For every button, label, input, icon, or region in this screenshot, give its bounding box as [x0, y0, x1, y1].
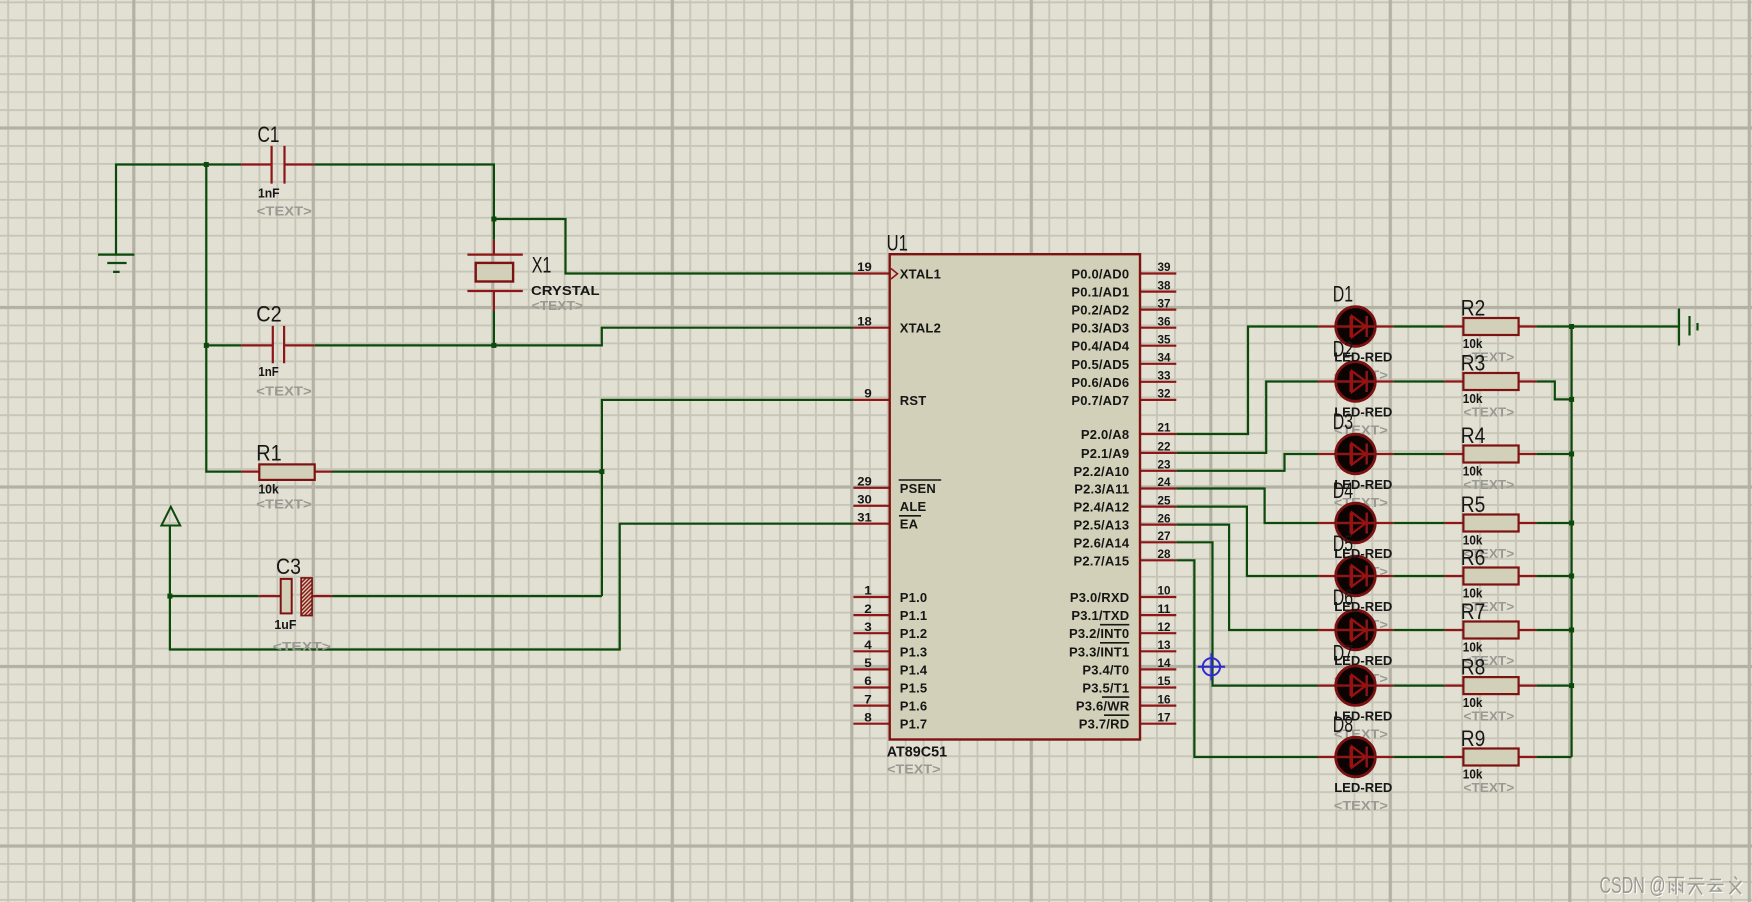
svg-text:23: 23	[1158, 458, 1171, 472]
svg-text:P3.2/INT0: P3.2/INT0	[1069, 626, 1129, 641]
svg-text:25: 25	[1158, 493, 1171, 507]
svg-text:12: 12	[1158, 620, 1171, 634]
svg-text:R5: R5	[1461, 492, 1486, 517]
svg-text:P0.3/AD3: P0.3/AD3	[1071, 321, 1129, 336]
svg-text:17: 17	[1158, 710, 1171, 724]
svg-text:29: 29	[857, 475, 872, 489]
svg-text:<TEXT>: <TEXT>	[887, 762, 941, 777]
svg-text:<TEXT>: <TEXT>	[532, 298, 584, 313]
svg-text:<TEXT>: <TEXT>	[1334, 798, 1388, 813]
svg-text:P1.3: P1.3	[900, 644, 928, 659]
svg-text:24: 24	[1158, 475, 1171, 489]
svg-text:31: 31	[857, 510, 872, 524]
svg-text:P1.0: P1.0	[900, 590, 928, 605]
svg-text:P0.1/AD1: P0.1/AD1	[1071, 285, 1129, 300]
svg-text:30: 30	[857, 493, 872, 507]
svg-text:ALE: ALE	[900, 499, 927, 514]
svg-text:P2.1/A9: P2.1/A9	[1081, 446, 1129, 461]
svg-text:P0.5/AD5: P0.5/AD5	[1071, 357, 1129, 372]
svg-text:38: 38	[1158, 278, 1171, 292]
svg-text:27: 27	[1158, 529, 1171, 543]
svg-text:C2: C2	[256, 301, 281, 326]
svg-text:X1: X1	[532, 252, 552, 277]
svg-text:10k: 10k	[258, 482, 279, 497]
svg-text:11: 11	[1158, 602, 1171, 616]
svg-text:P2.6/A14: P2.6/A14	[1073, 535, 1129, 550]
svg-text:P1.6: P1.6	[900, 699, 928, 714]
svg-text:P2.4/A12: P2.4/A12	[1073, 500, 1129, 515]
svg-text:<TEXT>: <TEXT>	[1464, 405, 1515, 420]
svg-text:32: 32	[1158, 387, 1171, 401]
svg-text:3: 3	[864, 620, 872, 634]
svg-text:D8: D8	[1333, 712, 1353, 737]
svg-text:1nF: 1nF	[258, 186, 280, 201]
svg-text:D5: D5	[1333, 531, 1353, 556]
svg-text:<TEXT>: <TEXT>	[1464, 477, 1515, 492]
svg-text:P0.6/AD6: P0.6/AD6	[1071, 375, 1129, 390]
svg-text:P3.7/RD: P3.7/RD	[1079, 717, 1130, 732]
svg-text:P3.6/WR: P3.6/WR	[1076, 699, 1130, 714]
svg-text:P0.2/AD2: P0.2/AD2	[1071, 303, 1129, 318]
svg-text:D2: D2	[1333, 336, 1353, 361]
svg-text:R7: R7	[1461, 599, 1486, 624]
svg-text:22: 22	[1158, 440, 1171, 454]
svg-text:2: 2	[864, 602, 872, 616]
svg-text:35: 35	[1158, 332, 1171, 346]
svg-text:15: 15	[1158, 674, 1171, 688]
svg-text:P1.4: P1.4	[900, 662, 928, 677]
svg-text:<TEXT>: <TEXT>	[256, 497, 312, 512]
svg-text:P0.4/AD4: P0.4/AD4	[1071, 339, 1130, 354]
svg-text:XTAL2: XTAL2	[900, 321, 941, 336]
svg-text:P3.0/RXD: P3.0/RXD	[1070, 590, 1129, 605]
svg-text:P1.2: P1.2	[900, 626, 928, 641]
svg-text:P3.1/TXD: P3.1/TXD	[1071, 608, 1129, 623]
svg-text:9: 9	[864, 387, 872, 401]
svg-text:34: 34	[1158, 351, 1171, 365]
svg-text:P2.2/A10: P2.2/A10	[1073, 464, 1129, 479]
svg-text:U1: U1	[887, 231, 908, 256]
svg-text:16: 16	[1158, 692, 1171, 706]
svg-text:6: 6	[864, 674, 872, 688]
svg-text:R1: R1	[256, 441, 281, 466]
svg-text:18: 18	[857, 314, 872, 328]
svg-text:5: 5	[864, 656, 872, 670]
svg-text:36: 36	[1158, 314, 1171, 328]
svg-text:P1.7: P1.7	[900, 717, 928, 732]
svg-text:P1.5: P1.5	[900, 681, 928, 696]
svg-text:<TEXT>: <TEXT>	[1464, 780, 1515, 795]
svg-text:P3.3/INT1: P3.3/INT1	[1069, 644, 1129, 659]
svg-text:R8: R8	[1461, 655, 1486, 680]
svg-text:37: 37	[1158, 296, 1171, 310]
svg-text:CSDN @: CSDN @	[1600, 872, 1666, 898]
svg-text:PSEN: PSEN	[900, 481, 936, 496]
svg-text:14: 14	[1158, 656, 1171, 670]
svg-text:CRYSTAL: CRYSTAL	[531, 283, 600, 298]
svg-text:P2.0/A8: P2.0/A8	[1081, 427, 1129, 442]
svg-text:XTAL1: XTAL1	[900, 267, 941, 282]
svg-text:21: 21	[1158, 421, 1171, 435]
svg-text:4: 4	[864, 638, 872, 652]
svg-text:33: 33	[1158, 369, 1171, 383]
svg-text:19: 19	[857, 260, 872, 274]
svg-text:7: 7	[864, 692, 872, 706]
svg-text:LED-RED: LED-RED	[1334, 780, 1392, 795]
svg-text:C1: C1	[258, 122, 280, 147]
svg-text:R2: R2	[1461, 296, 1486, 321]
svg-text:<TEXT>: <TEXT>	[256, 383, 312, 398]
svg-text:28: 28	[1158, 547, 1171, 561]
svg-text:AT89C51: AT89C51	[887, 744, 947, 761]
svg-text:P2.5/A13: P2.5/A13	[1073, 518, 1129, 533]
svg-text:R4: R4	[1461, 423, 1486, 448]
svg-text:P0.7/AD7: P0.7/AD7	[1071, 393, 1129, 408]
svg-text:<TEXT>: <TEXT>	[273, 639, 332, 654]
svg-text:D4: D4	[1333, 478, 1353, 503]
svg-text:26: 26	[1158, 511, 1171, 525]
svg-text:P1.1: P1.1	[900, 608, 928, 623]
svg-text:P2.7/A15: P2.7/A15	[1073, 553, 1129, 568]
svg-text:13: 13	[1158, 638, 1171, 652]
svg-text:D1: D1	[1333, 281, 1353, 306]
svg-text:D7: D7	[1333, 641, 1353, 666]
svg-text:D3: D3	[1333, 409, 1353, 434]
svg-text:1uF: 1uF	[274, 617, 296, 632]
svg-text:D6: D6	[1333, 585, 1353, 610]
svg-text:39: 39	[1158, 260, 1171, 274]
svg-text:P3.5/T1: P3.5/T1	[1082, 681, 1129, 696]
svg-text:1: 1	[864, 584, 872, 598]
svg-text:<TEXT>: <TEXT>	[257, 203, 312, 218]
svg-text:EA: EA	[900, 517, 919, 532]
svg-text:8: 8	[864, 710, 872, 724]
svg-text:P2.3/A11: P2.3/A11	[1074, 482, 1129, 497]
svg-text:P3.4/T0: P3.4/T0	[1082, 662, 1129, 677]
svg-text:R3: R3	[1461, 351, 1486, 376]
svg-text:1nF: 1nF	[258, 364, 278, 379]
svg-text:R6: R6	[1461, 545, 1486, 570]
svg-text:P0.0/AD0: P0.0/AD0	[1071, 267, 1129, 282]
svg-text:10: 10	[1158, 584, 1171, 598]
svg-text:RST: RST	[900, 393, 927, 408]
svg-text:<TEXT>: <TEXT>	[1464, 709, 1515, 724]
svg-text:R9: R9	[1461, 726, 1486, 751]
svg-text:C3: C3	[276, 554, 301, 579]
